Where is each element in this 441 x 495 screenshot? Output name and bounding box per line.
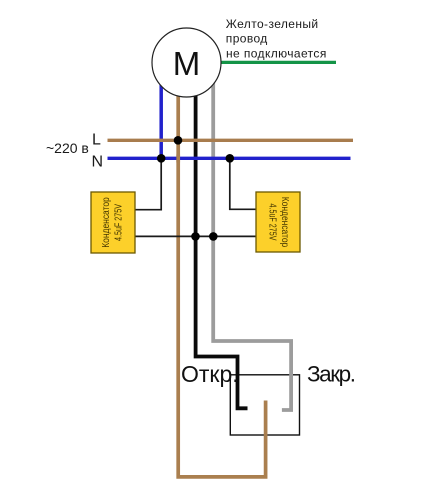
switch box bbox=[230, 375, 299, 435]
svg-text:4.5uF 275V: 4.5uF 275V bbox=[113, 204, 124, 241]
junction dot N-right capacitor bbox=[226, 154, 235, 163]
wire L line brown bbox=[108, 139, 354, 142]
wire N to left capacitor top lead bbox=[135, 158, 161, 209]
svg-text:М: М bbox=[173, 45, 201, 82]
svg-text:Закр.: Закр. bbox=[307, 362, 356, 387]
junction dot gray wire capacitor lead bbox=[209, 232, 218, 241]
wire capacitor bottom leads common bbox=[135, 235, 256, 237]
junction dot black wire capacitor lead bbox=[191, 232, 200, 241]
svg-text:L: L bbox=[92, 131, 101, 148]
svg-text:Откр.: Откр. bbox=[181, 361, 239, 387]
wire brown over N crossing bbox=[176, 155, 180, 163]
wire blue motor to N bbox=[159, 80, 163, 158]
motor M1 circle bbox=[152, 28, 221, 97]
svg-text:не подключается: не подключается bbox=[226, 47, 327, 61]
svg-text:N: N bbox=[92, 153, 104, 170]
wire N to right capacitor top lead bbox=[230, 158, 256, 209]
capacitor C1 left bbox=[91, 192, 135, 253]
wire green (yellow-green not connected) bbox=[218, 61, 336, 64]
svg-text:4.5uF 275V: 4.5uF 275V bbox=[267, 204, 278, 241]
wire N line blue bbox=[108, 157, 351, 160]
wire brown motor to L and switch common bbox=[178, 92, 265, 477]
svg-text:Желто-зеленый: Желто-зеленый bbox=[226, 17, 319, 31]
wire gray motor to switch Закр terminal bbox=[213, 82, 291, 410]
svg-text:Конденсатор: Конденсатор bbox=[279, 197, 290, 248]
note yellow-green wire text bbox=[226, 17, 327, 61]
svg-text:~220 в: ~220 в bbox=[46, 140, 89, 156]
wire black motor to switch Откр terminal bbox=[196, 92, 248, 408]
junction dot N-blue bbox=[157, 154, 166, 163]
svg-text:Конденсатор: Конденсатор bbox=[101, 197, 112, 248]
capacitor C2 right bbox=[256, 192, 300, 252]
svg-text:провод: провод bbox=[226, 32, 268, 46]
junction dot L-brown bbox=[174, 136, 183, 145]
